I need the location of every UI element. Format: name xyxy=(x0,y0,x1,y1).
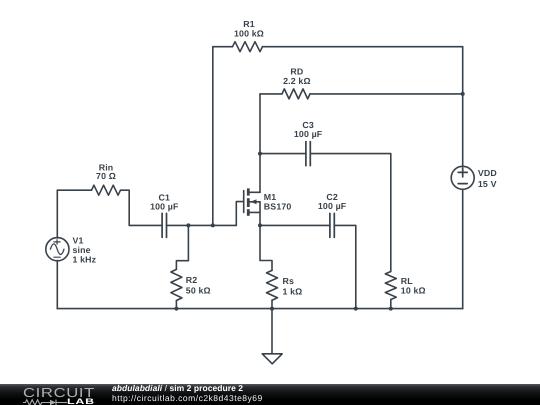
wire RD left leg down to C3 node xyxy=(259,94,261,154)
svg-text:sine: sine xyxy=(73,245,91,255)
CircuitLab logo doodle (resistor+diode) xyxy=(23,398,69,405)
resistor Rs xyxy=(267,270,278,300)
transistor M1 body arrow xyxy=(251,199,257,204)
transistor M1 source stub xyxy=(250,211,261,213)
CircuitLab logo text CIRCUIT xyxy=(23,385,95,400)
svg-text:R2: R2 xyxy=(186,275,198,285)
footer bar xyxy=(0,384,540,405)
svg-text:V1: V1 xyxy=(73,236,84,246)
wire R1 left leg xyxy=(212,47,214,226)
resistor R2 xyxy=(171,269,182,300)
source V1 xyxy=(46,238,69,261)
svg-text:10 kΩ: 10 kΩ xyxy=(401,286,426,296)
capacitor C3 xyxy=(305,142,307,166)
wire Rs bottom xyxy=(271,300,273,308)
wire R1 top rail xyxy=(213,46,233,48)
node source junction xyxy=(258,223,262,227)
node gate-R1 junction xyxy=(211,223,215,227)
resistor Rin xyxy=(92,185,121,195)
wire source rail to C2 xyxy=(260,224,330,226)
node R2-ground junction xyxy=(174,307,178,311)
footer title line xyxy=(112,383,243,393)
wire RL bottom xyxy=(390,300,392,309)
node Rs-ground junction xyxy=(270,307,274,311)
svg-text:100 kΩ: 100 kΩ xyxy=(234,29,264,39)
svg-text:VDD: VDD xyxy=(478,168,497,178)
wire drain line (C3 node to drain) xyxy=(259,154,261,193)
wire bottom rail xyxy=(57,308,462,310)
svg-text:100 µF: 100 µF xyxy=(318,201,347,211)
transistor M1 body stub xyxy=(250,201,261,203)
CircuitLab logo text LAB xyxy=(67,397,95,405)
wire C3 rail right + down to RL xyxy=(310,154,391,272)
svg-text:Rs: Rs xyxy=(283,276,295,286)
transistor M1 channel segments xyxy=(247,188,250,195)
wire V1 top leg xyxy=(56,190,58,238)
footer url line xyxy=(112,393,263,403)
svg-text:100 µF: 100 µF xyxy=(150,201,179,211)
wire C3 rail left xyxy=(260,153,306,155)
wire Rs tap jog xyxy=(260,225,272,270)
wire gate rail (C1 area) xyxy=(129,224,162,226)
capacitor C2 xyxy=(329,213,331,237)
node RL-ground junction xyxy=(389,307,393,311)
svg-text:15 V: 15 V xyxy=(478,179,497,189)
svg-text:1 kHz: 1 kHz xyxy=(73,255,97,265)
svg-text:2.2 kΩ: 2.2 kΩ xyxy=(283,76,311,86)
wire gate up-jog xyxy=(236,202,243,226)
node C2-ground junction xyxy=(354,307,358,311)
wire R2 tap jog xyxy=(176,225,188,269)
source VDD xyxy=(451,166,474,189)
wire Rin rail xyxy=(57,189,91,191)
capacitor C1 xyxy=(161,213,163,237)
wire ground stem xyxy=(271,309,273,354)
svg-text:50 kΩ: 50 kΩ xyxy=(186,286,211,296)
ground xyxy=(262,354,282,364)
resistor RL xyxy=(385,272,396,300)
wire V1 bottom leg xyxy=(56,260,58,308)
resistor RD xyxy=(282,89,310,99)
svg-text:BS170: BS170 xyxy=(264,201,292,211)
svg-text:100 µF: 100 µF xyxy=(294,129,323,139)
node gate-R2 junction xyxy=(186,223,190,227)
node drain-C3 junction xyxy=(258,152,262,156)
wire source vertical (body to source node) xyxy=(259,202,261,226)
node RD-right-rail junction xyxy=(461,92,465,96)
svg-text:70 Ω: 70 Ω xyxy=(96,171,116,181)
wire right rail top (R1 to VDD) xyxy=(462,47,464,167)
transistor M1 drain stub xyxy=(250,191,261,193)
svg-text:1 kΩ: 1 kΩ xyxy=(283,287,303,297)
transistor M1 gate bar xyxy=(243,191,245,213)
wire R2 bottom xyxy=(175,301,177,309)
wire right rail bottom (VDD to bottom) xyxy=(462,189,464,308)
wire RD rail xyxy=(260,93,282,95)
resistor R1 xyxy=(233,42,263,52)
